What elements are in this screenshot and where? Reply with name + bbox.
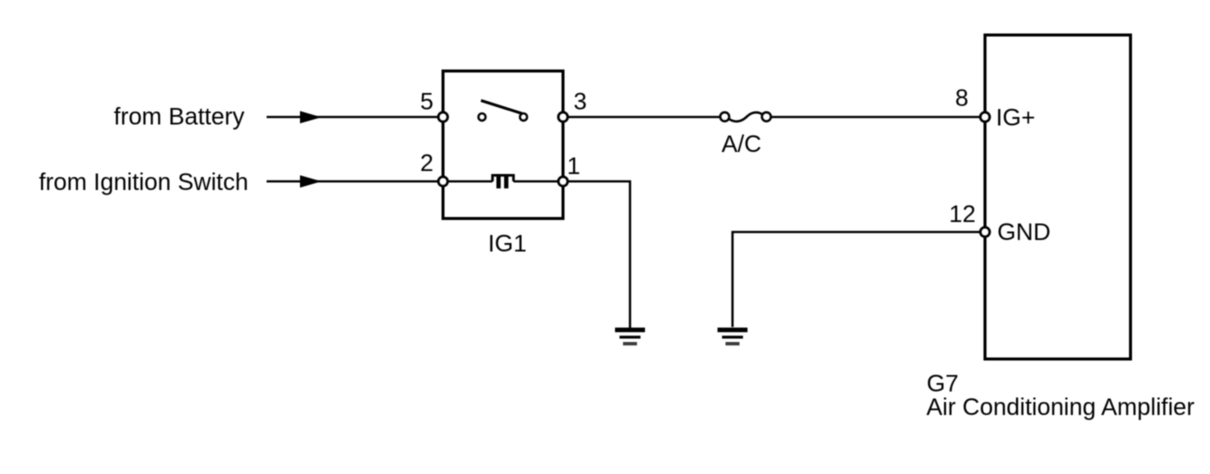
- svg-text:5: 5: [420, 89, 433, 116]
- fuse A/C: [729, 112, 763, 121]
- svg-text:Air Conditioning Amplifier: Air Conditioning Amplifier: [926, 394, 1194, 421]
- wire: coil to pin1: [514, 180, 564, 182]
- svg-text:2: 2: [420, 150, 433, 177]
- wire: amplifier pin 12 (GND) to ground: [733, 232, 986, 327]
- wire: ignition switch input to relay pin 2: [267, 180, 443, 182]
- wire: relay pin 3 to fuse: [563, 116, 720, 118]
- relay pin 1: [558, 177, 567, 186]
- relay IG1 box: [443, 71, 563, 219]
- amplifier pin 12: [980, 227, 989, 236]
- amplifier G7 box: [985, 35, 1131, 359]
- wire: relay pin 1 to ground: [563, 181, 630, 328]
- wire: battery input to relay pin 5: [267, 116, 443, 118]
- svg-text:IG1: IG1: [488, 231, 527, 258]
- arrowhead on battery wire: [300, 111, 322, 123]
- ground (left): [615, 328, 645, 346]
- switch contact right: [520, 113, 527, 120]
- amplifier pin 8: [980, 112, 989, 121]
- svg-text:12: 12: [949, 201, 976, 228]
- svg-text:from Battery: from Battery: [114, 104, 245, 131]
- svg-text:A/C: A/C: [722, 131, 762, 158]
- switch blade: [481, 101, 522, 114]
- wire: fuse to amplifier pin 8: [771, 116, 985, 118]
- svg-text:8: 8: [955, 85, 968, 112]
- arrowhead on ignition wire: [300, 175, 322, 187]
- relay pin 2: [438, 177, 447, 186]
- relay pin 5: [438, 112, 447, 121]
- svg-text:3: 3: [574, 89, 587, 116]
- svg-text:1: 1: [567, 153, 580, 180]
- ground (right): [718, 328, 748, 346]
- svg-text:IG+: IG+: [996, 104, 1035, 131]
- relay coil: [493, 175, 514, 181]
- wire: relay internal bottom row (pin2 to coil): [443, 180, 493, 182]
- relay pin 3: [558, 112, 567, 121]
- svg-text:GND: GND: [997, 219, 1050, 246]
- svg-text:from Ignition Switch: from Ignition Switch: [39, 169, 248, 196]
- switch contact left: [478, 113, 485, 120]
